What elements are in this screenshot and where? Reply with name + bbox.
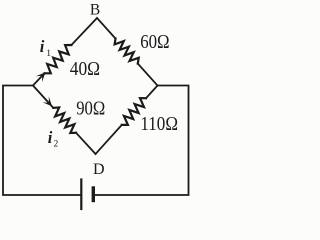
current arrow i1	[36, 72, 46, 82]
wire resistor-to-D	[96, 125, 122, 154]
svg-text:40Ω: 40Ω	[70, 58, 100, 80]
wire node-to-resistor on left-top branch	[33, 73, 45, 85]
wire: battery right to right frame, up, to right node	[94, 86, 188, 196]
svg-text:D: D	[93, 161, 105, 178]
wire node-to-resistor on left-bottom branch	[33, 86, 53, 108]
wire resistor-to-right-node	[138, 64, 158, 86]
svg-text:110Ω: 110Ω	[140, 113, 178, 135]
resistor 110ohm zigzag	[122, 98, 146, 125]
resistor 60ohm zigzag	[115, 39, 139, 64]
svg-text:2: 2	[54, 140, 59, 150]
battery long plate	[80, 180, 82, 210]
svg-text:1: 1	[46, 49, 51, 59]
wire resistor-to-D	[76, 133, 95, 154]
current arrow i2	[43, 97, 53, 107]
svg-text:i: i	[48, 128, 53, 147]
svg-text:90Ω: 90Ω	[76, 98, 105, 120]
wire resistor-to-B	[71, 18, 97, 45]
svg-text:B: B	[90, 1, 100, 18]
resistor 90ohm zigzag	[53, 108, 76, 134]
wire B-to-resistor on top-right branch	[97, 18, 116, 39]
resistor 40ohm zigzag	[45, 45, 72, 73]
battery short plate	[92, 188, 95, 201]
wire right-node-to-resistor on bottom-right branch	[146, 86, 158, 99]
svg-text:60Ω: 60Ω	[140, 31, 169, 53]
Wheatstone bridge circuit	[0, 0, 194, 213]
wire: left node to left frame, down, bottom to battery	[3, 86, 80, 196]
svg-text:i: i	[40, 37, 45, 56]
